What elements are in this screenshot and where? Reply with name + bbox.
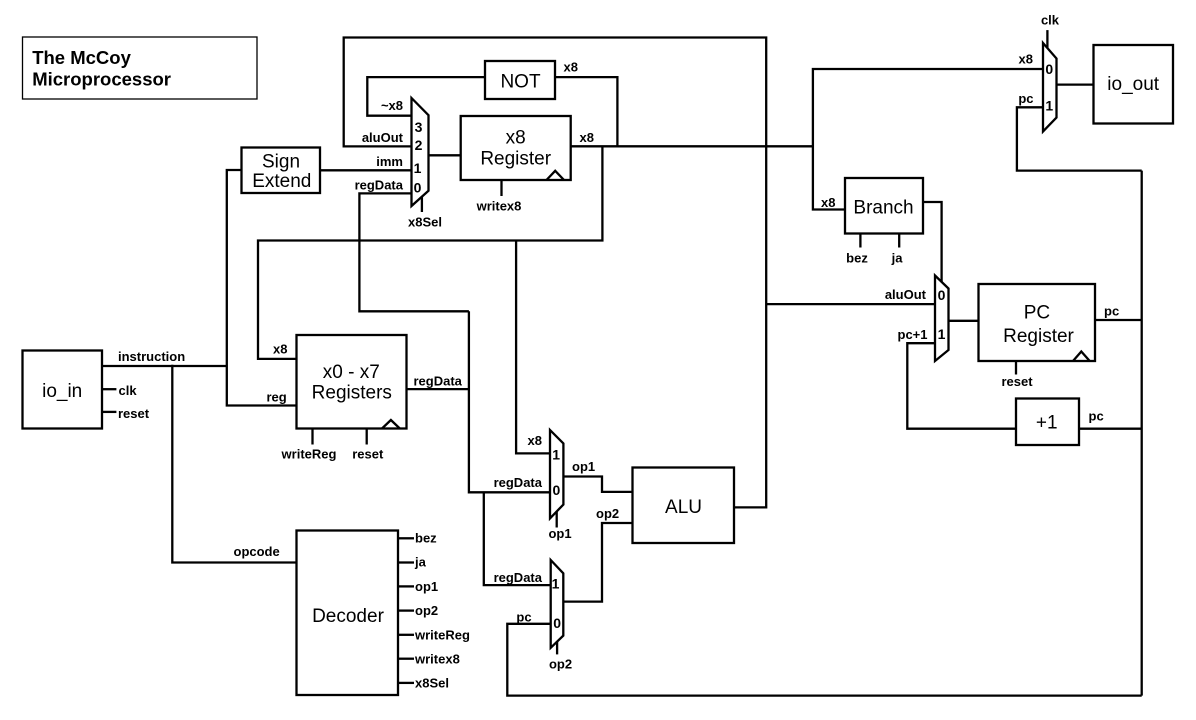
wire regData: x0-x7 output to trunk (407, 388, 469, 390)
svg-text:reg: reg (267, 390, 287, 405)
wire pc trunk vertical (1141, 171, 1143, 696)
wire op2 stub on Decoder (398, 609, 414, 611)
svg-text:2: 2 (415, 137, 423, 153)
wire instruction: io_in to junction (102, 365, 227, 367)
svg-text:x8: x8 (273, 342, 287, 357)
svg-text:io_in: io_in (42, 381, 82, 402)
wire op2: op2 mux output to ALU (563, 523, 632, 602)
svg-text:NOT: NOT (500, 71, 541, 92)
wire regData to mux x8Sel pin0 (359, 193, 469, 311)
wire ~x8: NOT output to mux x8Sel pin3 (367, 77, 485, 116)
svg-text:pc: pc (1018, 91, 1033, 106)
svg-text:reset: reset (1001, 374, 1033, 389)
mux x8Sel (4-input) (412, 98, 429, 206)
wire x8Sel select stub (421, 197, 423, 212)
svg-text:op1: op1 (572, 459, 595, 474)
svg-text:+1: +1 (1036, 413, 1058, 434)
svg-text:0: 0 (414, 180, 422, 196)
wire x8: register output main run (571, 145, 813, 147)
block Decoder (297, 531, 399, 696)
wire opcode: junction down to Decoder (172, 365, 296, 563)
clock triangle on x8 Register (547, 171, 565, 180)
wire writeReg stub on Decoder (398, 634, 414, 636)
wire pc mux output to PC Register (949, 320, 979, 322)
svg-text:PC: PC (1024, 303, 1050, 324)
svg-text:pc: pc (1089, 409, 1104, 424)
wire writex8 stub on Decoder (398, 658, 414, 660)
wire reset stub under x0-x7 (366, 429, 368, 445)
svg-text:Microprocessor: Microprocessor (32, 69, 171, 90)
wire reset stub on io_in (102, 411, 117, 413)
svg-text:clk: clk (119, 383, 138, 398)
wire branch select into pc mux (923, 202, 942, 282)
svg-text:0: 0 (938, 287, 946, 303)
wire bez stub on Decoder (398, 537, 414, 539)
block Sign Extend (242, 148, 321, 194)
svg-text:x8: x8 (506, 128, 526, 149)
wire op1: op1 mux output to ALU (563, 477, 632, 492)
svg-text:x8Sel: x8Sel (415, 676, 449, 691)
svg-text:Register: Register (480, 149, 551, 170)
svg-text:reset: reset (118, 406, 150, 421)
svg-text:Registers: Registers (312, 383, 392, 404)
wire x8Sel stub on Decoder (398, 682, 414, 684)
svg-text:opcode: opcode (234, 544, 280, 559)
svg-text:ja: ja (414, 555, 427, 570)
wire instruction branch up to Sign Extend and down to reg input (227, 170, 297, 406)
wire regData trunk down to op1 mux pin0 (469, 311, 551, 492)
svg-text:op1: op1 (415, 579, 438, 594)
svg-text:regData: regData (355, 178, 404, 193)
wire clk stub into io_out mux (1046, 30, 1048, 48)
svg-text:writex8: writex8 (414, 651, 460, 666)
svg-text:x8: x8 (821, 195, 835, 210)
block NOT (485, 61, 555, 99)
svg-text:clk: clk (1041, 13, 1060, 28)
svg-text:aluOut: aluOut (362, 130, 404, 145)
svg-text:bez: bez (846, 251, 868, 266)
svg-text:regData: regData (414, 374, 463, 389)
wire op1 stub on Decoder (398, 585, 414, 587)
svg-text:writex8: writex8 (476, 199, 522, 214)
wire x8 branch up into NOT input (555, 77, 617, 146)
svg-text:writeReg: writeReg (414, 627, 470, 642)
svg-text:x0 - x7: x0 - x7 (323, 362, 380, 383)
svg-text:op2: op2 (596, 506, 619, 521)
wire x8 branch down to op1 mux pin1 (516, 241, 550, 454)
clock triangle on x0-x7 Registers (382, 420, 400, 429)
wire op1 select stub (556, 512, 558, 528)
svg-text:1: 1 (552, 576, 560, 592)
svg-text:bez: bez (415, 531, 437, 546)
svg-text:pc: pc (516, 610, 531, 625)
svg-text:1: 1 (414, 160, 422, 176)
svg-text:1: 1 (938, 326, 946, 342)
block PC Register (979, 284, 1096, 361)
svg-text:writeReg: writeReg (281, 447, 337, 462)
wire ja stub under Branch (898, 234, 900, 248)
wire pc into +1 (1079, 428, 1142, 430)
svg-text:x8: x8 (580, 130, 594, 145)
wire bez stub under Branch (859, 234, 861, 248)
wire regData branch down to op2 mux pin1 (484, 492, 551, 585)
block Branch (845, 178, 923, 234)
svg-text:~x8: ~x8 (381, 98, 403, 113)
wire pc+1: +1 output to pc mux pin1 (907, 343, 1016, 429)
svg-text:The McCoy: The McCoy (32, 47, 131, 68)
svg-text:1: 1 (1045, 98, 1053, 114)
svg-text:pc+1: pc+1 (898, 327, 928, 342)
mux pc (2-input) (935, 276, 949, 362)
svg-text:x8Sel: x8Sel (408, 215, 442, 230)
svg-text:Sign: Sign (262, 152, 300, 173)
svg-text:0: 0 (1045, 61, 1053, 77)
wire x8 feedback down and left to x0-x7 registers (258, 146, 602, 359)
svg-text:ALU: ALU (665, 497, 702, 518)
wire aluOut branch to pc mux pin0 (766, 303, 935, 305)
wire imm: Sign Extend to mux x8Sel pin1 (320, 169, 412, 171)
wire op2 select stub (556, 641, 558, 655)
svg-text:Extend: Extend (252, 171, 311, 192)
svg-text:Decoder: Decoder (312, 606, 384, 627)
svg-text:Register: Register (1003, 326, 1074, 347)
block ALU (633, 468, 735, 544)
wire mux x8Sel output to x8 Register input (429, 154, 462, 156)
wire x8 right branch to io_out mux pin0 and Branch (813, 69, 1043, 210)
svg-text:3: 3 (415, 119, 423, 135)
wire io_out mux output to io_out (1057, 83, 1094, 85)
wire writeReg stub under x0-x7 (311, 429, 313, 445)
svg-text:aluOut: aluOut (885, 287, 927, 302)
wire clk stub on io_in (102, 388, 117, 390)
svg-text:0: 0 (553, 482, 561, 498)
svg-text:1: 1 (552, 447, 560, 463)
wire ja stub on Decoder (398, 561, 414, 563)
svg-text:Branch: Branch (853, 198, 913, 219)
wire pc top branch to io_out mux pin1 (1017, 107, 1142, 170)
svg-text:regData: regData (494, 475, 543, 490)
svg-text:regData: regData (494, 570, 543, 585)
svg-text:x8: x8 (564, 60, 578, 75)
svg-text:imm: imm (376, 154, 403, 169)
title box (23, 37, 258, 99)
wire pc: PC Register output to trunk (1095, 319, 1142, 321)
clock triangle on PC Register (1073, 352, 1090, 362)
svg-text:op2: op2 (415, 603, 438, 618)
wire pc bottom branch to op2 mux pin0 (507, 624, 1141, 696)
svg-text:reset: reset (352, 447, 384, 462)
svg-text:x8: x8 (528, 433, 542, 448)
mux io_out (2-input) (1043, 43, 1057, 132)
svg-text:pc: pc (1104, 304, 1119, 319)
svg-text:ja: ja (891, 251, 904, 266)
mux op2 (2-input) (551, 560, 564, 648)
wire reset stub under PC Register (1015, 361, 1017, 375)
svg-text:op1: op1 (548, 526, 571, 541)
block +1 (1016, 399, 1079, 446)
block x0-x7 Registers (297, 335, 407, 429)
block io_in (23, 351, 103, 429)
svg-text:instruction: instruction (118, 349, 185, 364)
svg-text:io_out: io_out (1107, 74, 1159, 95)
svg-text:0: 0 (553, 615, 561, 631)
block io_out (1094, 45, 1174, 124)
block x8 Register (461, 116, 571, 180)
mux op1 (2-input) (550, 430, 563, 518)
wire writex8 stub under x8 Register (500, 180, 502, 196)
svg-text:x8: x8 (1019, 52, 1033, 67)
wire aluOut: ALU output up over the top to mux x8Sel pin2 (344, 38, 767, 508)
svg-text:op2: op2 (549, 657, 572, 672)
